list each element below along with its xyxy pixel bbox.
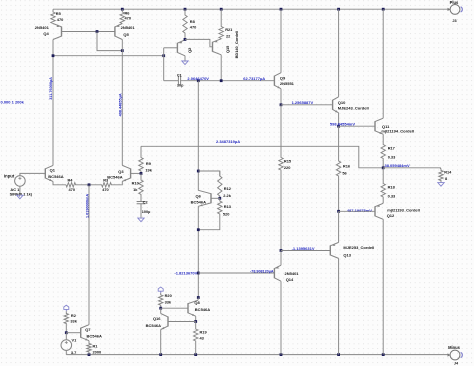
resistor R1 2000 bbox=[87, 341, 91, 355]
svg-text:MJE243_Cordell: MJE243_Cordell bbox=[338, 106, 369, 111]
svg-text:C2: C2 bbox=[143, 200, 148, 204]
svg-text:R14: R14 bbox=[444, 170, 452, 175]
transistor Q11 mjl21194 bbox=[374, 121, 376, 131]
transistor Q14 2N5401 bbox=[273, 268, 275, 278]
capacitor C2 100u bbox=[137, 202, 146, 204]
junction bbox=[280, 8, 283, 11]
svg-text:Plus: Plus bbox=[450, 0, 459, 5]
svg-text:2N5401: 2N5401 bbox=[35, 25, 50, 30]
junction bbox=[197, 79, 200, 82]
wire R13 to spreader bottom bbox=[198, 226, 220, 230]
junction bbox=[162, 54, 165, 57]
svg-text:470: 470 bbox=[125, 15, 132, 20]
wire R3 to Q3 emitter bbox=[121, 181, 122, 184]
resistor R8 470 bbox=[183, 9, 187, 39]
node Q7 base bbox=[65, 331, 68, 334]
transistor Q7 BC546A bbox=[80, 328, 82, 338]
resistor R16 56 bbox=[336, 126, 340, 211]
resistor R5 470 bbox=[51, 9, 55, 23]
svg-text:Q16: Q16 bbox=[153, 316, 161, 321]
svg-text:BC546A: BC546A bbox=[191, 199, 206, 204]
svg-text:0.000 1 200k: 0.000 1 200k bbox=[1, 99, 25, 104]
svg-text:Q8: Q8 bbox=[194, 300, 200, 305]
transistor Q15 BD140 bbox=[212, 42, 214, 52]
svg-text:C1: C1 bbox=[177, 74, 182, 78]
wire Q15 collector down bbox=[220, 55, 222, 81]
junction bbox=[382, 353, 385, 356]
svg-text:Q7: Q7 bbox=[85, 327, 91, 332]
node Q9 emitter bbox=[280, 103, 283, 106]
svg-text:Q14: Q14 bbox=[286, 277, 294, 282]
node Q2 emitter / R8 bbox=[184, 38, 187, 41]
svg-text:2N5401: 2N5401 bbox=[121, 25, 136, 30]
svg-text:R15: R15 bbox=[284, 159, 292, 164]
node spreader top bbox=[197, 170, 200, 173]
resistor R15 220 bbox=[279, 105, 283, 251]
svg-text:Q6: Q6 bbox=[195, 193, 201, 198]
node Q14 base tap bbox=[197, 272, 200, 275]
svg-text:33k: 33k bbox=[70, 319, 77, 324]
svg-text:0.33: 0.33 bbox=[388, 194, 396, 199]
svg-text:BC546A: BC546A bbox=[195, 307, 210, 312]
svg-text:R5: R5 bbox=[56, 11, 62, 16]
svg-text:R13: R13 bbox=[224, 204, 232, 209]
svg-text:Q15: Q15 bbox=[225, 45, 230, 53]
wire V1 top bbox=[65, 333, 67, 340]
transistor Q6 BC546A bbox=[210, 193, 212, 203]
svg-text:R21: R21 bbox=[225, 27, 233, 32]
node diff tail bbox=[88, 183, 91, 186]
svg-text:2.0646470V: 2.0646470V bbox=[187, 76, 209, 81]
junction bbox=[194, 353, 197, 356]
transistor Q8 BC546A bbox=[187, 303, 189, 313]
wire spreader bottom vertical bbox=[197, 206, 199, 297]
voltage source V1 3.7 bbox=[61, 340, 72, 351]
wire V1 to -rail bbox=[65, 350, 67, 354]
wire Q16 emitter to -rail bbox=[160, 330, 162, 355]
svg-text:2.3487319µA: 2.3487319µA bbox=[216, 139, 240, 144]
resistor R3 470 bbox=[89, 183, 121, 187]
wire Q5 collector to Q3 collector bbox=[121, 40, 123, 166]
wire to Q10 base bbox=[281, 104, 333, 106]
svg-text:R1: R1 bbox=[93, 343, 99, 348]
wire Q8 collector stub bbox=[197, 298, 199, 301]
svg-text:MJE253_Cordell: MJE253_Cordell bbox=[343, 245, 374, 250]
wire Q10 collector to +rail bbox=[338, 9, 340, 97]
svg-text:Q13: Q13 bbox=[343, 252, 351, 257]
port Plus J3 bbox=[450, 4, 460, 14]
svg-text:R19: R19 bbox=[200, 330, 208, 335]
wire Q10 emitter down bbox=[338, 113, 340, 126]
svg-text:BC546A: BC546A bbox=[107, 175, 122, 180]
svg-text:BC546A: BC546A bbox=[87, 334, 102, 339]
resistor R17 0.33 bbox=[381, 134, 385, 168]
transistor Q10 MJE243 bbox=[332, 100, 334, 110]
svg-text:30p: 30p bbox=[177, 84, 184, 88]
node Q13 base drive bbox=[280, 249, 283, 252]
wire Q13 collector to -rail bbox=[338, 258, 340, 354]
svg-text:Q12: Q12 bbox=[387, 213, 395, 218]
junction bbox=[159, 353, 162, 356]
wire Q13 emitter vertical bbox=[338, 211, 340, 242]
svg-text:Q9: Q9 bbox=[280, 76, 286, 81]
port Minus J4 bbox=[450, 350, 460, 360]
resistor R4 470 bbox=[66, 183, 89, 187]
ground V2 bbox=[17, 195, 23, 199]
wire to Q14 base bbox=[198, 272, 274, 274]
wire mirror base-collector jog bbox=[97, 32, 122, 51]
svg-text:-78.908120µA: -78.908120µA bbox=[250, 269, 274, 273]
svg-text:R8: R8 bbox=[190, 19, 196, 24]
wire Q2 base bbox=[164, 47, 178, 49]
wire feedback from output bbox=[141, 146, 383, 168]
svg-text:mjl21194_Cordell: mjl21194_Cordell bbox=[381, 129, 414, 134]
transistor Q1 BC546A bbox=[44, 168, 46, 178]
wire to Q7 base bbox=[66, 332, 80, 334]
transistor Q4 2N5401 bbox=[61, 27, 63, 37]
wire Q8 emitter down bbox=[195, 316, 197, 321]
svg-text:2N5551: 2N5551 bbox=[280, 81, 295, 86]
resistor R21 22 bbox=[219, 9, 223, 39]
wire to Q11 base bbox=[339, 125, 375, 127]
svg-text:Q3: Q3 bbox=[118, 169, 124, 174]
svg-text:1.0190000mA: 1.0190000mA bbox=[86, 194, 90, 218]
svg-text:-1.8213670V: -1.8213670V bbox=[174, 270, 197, 275]
wire Q3 base to divider bbox=[131, 172, 141, 174]
svg-text:470: 470 bbox=[190, 25, 197, 30]
node Q8 collector bbox=[197, 296, 200, 299]
svg-text:BC546A: BC546A bbox=[48, 174, 63, 179]
transistor Q13 MJE253 bbox=[329, 245, 331, 255]
svg-text:3.7: 3.7 bbox=[71, 350, 76, 355]
voltage source V2 input bbox=[15, 176, 26, 187]
wire Q1 emitter to R4 bbox=[53, 181, 66, 184]
svg-text:BC546A: BC546A bbox=[146, 323, 161, 328]
wire Q14 emitter up bbox=[280, 251, 282, 266]
wire mirror output to VAS input bbox=[53, 55, 164, 57]
resistor R6 470 bbox=[120, 9, 124, 23]
resistor R20 33k bbox=[159, 293, 163, 308]
junction bbox=[382, 8, 385, 11]
wire Q14 collector to -rail bbox=[280, 281, 282, 354]
ground Q2 bbox=[182, 61, 188, 65]
wire input to Q1 base bbox=[20, 173, 45, 175]
svg-text:470: 470 bbox=[69, 187, 76, 192]
wire output to R14 bbox=[383, 168, 440, 169]
svg-text:R2: R2 bbox=[71, 313, 77, 318]
junction bbox=[96, 30, 99, 33]
resistor R19 43 bbox=[194, 322, 198, 355]
svg-text:R12: R12 bbox=[224, 186, 232, 191]
svg-text:2.2k: 2.2k bbox=[223, 193, 231, 198]
svg-text:62.73177µA: 62.73177µA bbox=[243, 76, 265, 81]
junction bbox=[184, 8, 187, 11]
resistor R12 2.2k bbox=[218, 171, 222, 198]
wire Q9 emitter down bbox=[280, 89, 282, 105]
transistor Q2 bbox=[176, 43, 178, 53]
junction bbox=[220, 79, 223, 82]
wire Q11 collector to +rail bbox=[382, 9, 384, 118]
svg-text:Input: Input bbox=[4, 174, 15, 179]
wire C2 to ground bbox=[140, 204, 142, 218]
svg-text:408.44855µA: 408.44855µA bbox=[119, 93, 123, 116]
transistor Q5 2N5401 bbox=[114, 27, 116, 37]
svg-text:0.33: 0.33 bbox=[388, 154, 396, 159]
svg-text:R10: R10 bbox=[132, 181, 139, 186]
junction bbox=[52, 54, 55, 57]
wire top +rail bbox=[53, 8, 448, 10]
svg-text:2000: 2000 bbox=[93, 349, 102, 354]
wire Q16 base to Q8 emitter bbox=[168, 321, 196, 323]
wire Q2 emitter to Q15 base bbox=[185, 39, 213, 46]
wire to Q13 base bbox=[281, 250, 330, 252]
wire V2 to ground bbox=[19, 186, 21, 195]
resistor R13 520 bbox=[218, 198, 222, 225]
resistor R2 33k bbox=[64, 311, 68, 333]
junction bbox=[280, 353, 283, 356]
svg-text:520: 520 bbox=[223, 212, 230, 217]
transistor Q9 2N5551 bbox=[273, 76, 275, 86]
wire spreader top vertical bbox=[197, 81, 199, 191]
svg-text:-487.19975mV: -487.19975mV bbox=[346, 208, 373, 213]
resistor R14 8 bbox=[439, 169, 443, 183]
junction bbox=[121, 49, 124, 52]
svg-text:R4: R4 bbox=[68, 177, 74, 182]
node Q11 base bbox=[337, 125, 340, 128]
wire to Q8 base bbox=[161, 307, 188, 309]
junction bbox=[220, 8, 223, 11]
ground R14 bbox=[438, 183, 444, 187]
svg-text:BD140_Cordell: BD140_Cordell bbox=[234, 31, 239, 59]
svg-text:470: 470 bbox=[102, 187, 109, 192]
wire C1 to Q9 base bbox=[181, 80, 275, 82]
svg-text:33k: 33k bbox=[165, 300, 172, 305]
wire mirror base rail bbox=[62, 31, 115, 33]
junction bbox=[88, 353, 91, 356]
svg-text:100µ: 100µ bbox=[142, 210, 151, 214]
junction bbox=[337, 353, 340, 356]
node output bbox=[382, 166, 385, 169]
svg-text:R20: R20 bbox=[165, 293, 172, 298]
wire Q12 collector to -rail bbox=[382, 219, 384, 354]
svg-text:Q10: Q10 bbox=[338, 100, 346, 105]
wire Q16 collector up bbox=[160, 308, 162, 313]
wire to Q12 base bbox=[339, 210, 375, 212]
svg-text:2N5401: 2N5401 bbox=[285, 271, 300, 276]
node feedback bbox=[140, 172, 143, 175]
wire Q9 collector to +rail bbox=[280, 9, 282, 72]
resistor R18 0.33 bbox=[381, 168, 385, 204]
wire bottom -rail bbox=[66, 354, 448, 356]
svg-text:470: 470 bbox=[57, 17, 64, 22]
svg-text:R18: R18 bbox=[388, 185, 396, 190]
node R12/R13 mid bbox=[218, 197, 221, 200]
svg-text:Q2: Q2 bbox=[187, 47, 192, 53]
transistor Q12 mjl21193 bbox=[374, 206, 376, 216]
wire tail down to Q7 bbox=[88, 185, 90, 325]
svg-text:Q4: Q4 bbox=[43, 31, 49, 36]
svg-text:220: 220 bbox=[284, 165, 291, 170]
svg-text:R17: R17 bbox=[388, 146, 395, 151]
resistor R9 19k bbox=[139, 146, 143, 173]
wire to R12 bbox=[198, 171, 220, 176]
svg-text:311.76000µA: 311.76000µA bbox=[49, 77, 53, 100]
ground C2 bbox=[138, 218, 144, 222]
net flag R20 bbox=[158, 287, 163, 293]
wire Q6 base bbox=[211, 197, 220, 199]
wire to C1 bbox=[164, 80, 179, 82]
svg-text:Q1: Q1 bbox=[50, 168, 56, 173]
node spreader bottom bbox=[197, 228, 200, 231]
svg-text:R9: R9 bbox=[146, 161, 152, 166]
svg-text:Q5: Q5 bbox=[123, 32, 129, 37]
capacitor C1 30p bbox=[178, 76, 180, 85]
node Q16 collector bbox=[159, 307, 162, 310]
wire Q2 collector to ground bbox=[184, 56, 186, 61]
transistor Q3 BC546A bbox=[130, 168, 132, 178]
node Q12 base bbox=[337, 210, 340, 213]
junction bbox=[337, 8, 340, 11]
wire Q4 collector to Q1 collector bbox=[52, 40, 54, 166]
junction bbox=[121, 8, 124, 11]
svg-text:19k: 19k bbox=[145, 167, 152, 172]
node Q16 base bbox=[194, 320, 197, 323]
svg-text:R16: R16 bbox=[343, 164, 351, 169]
svg-text:598.84554mV: 598.84554mV bbox=[330, 121, 355, 126]
transistor Q16 BC546A bbox=[167, 317, 169, 327]
svg-text:V1: V1 bbox=[72, 337, 78, 342]
svg-text:J3: J3 bbox=[452, 19, 456, 23]
net flag R2 bbox=[64, 305, 69, 311]
resistor R10 1k bbox=[139, 173, 143, 201]
svg-text:Minus: Minus bbox=[448, 345, 461, 350]
svg-text:mjl21193_Cordell: mjl21193_Cordell bbox=[387, 208, 420, 213]
wire VAS input vertical bbox=[163, 48, 165, 81]
svg-text:1.2565887V: 1.2565887V bbox=[292, 100, 314, 105]
